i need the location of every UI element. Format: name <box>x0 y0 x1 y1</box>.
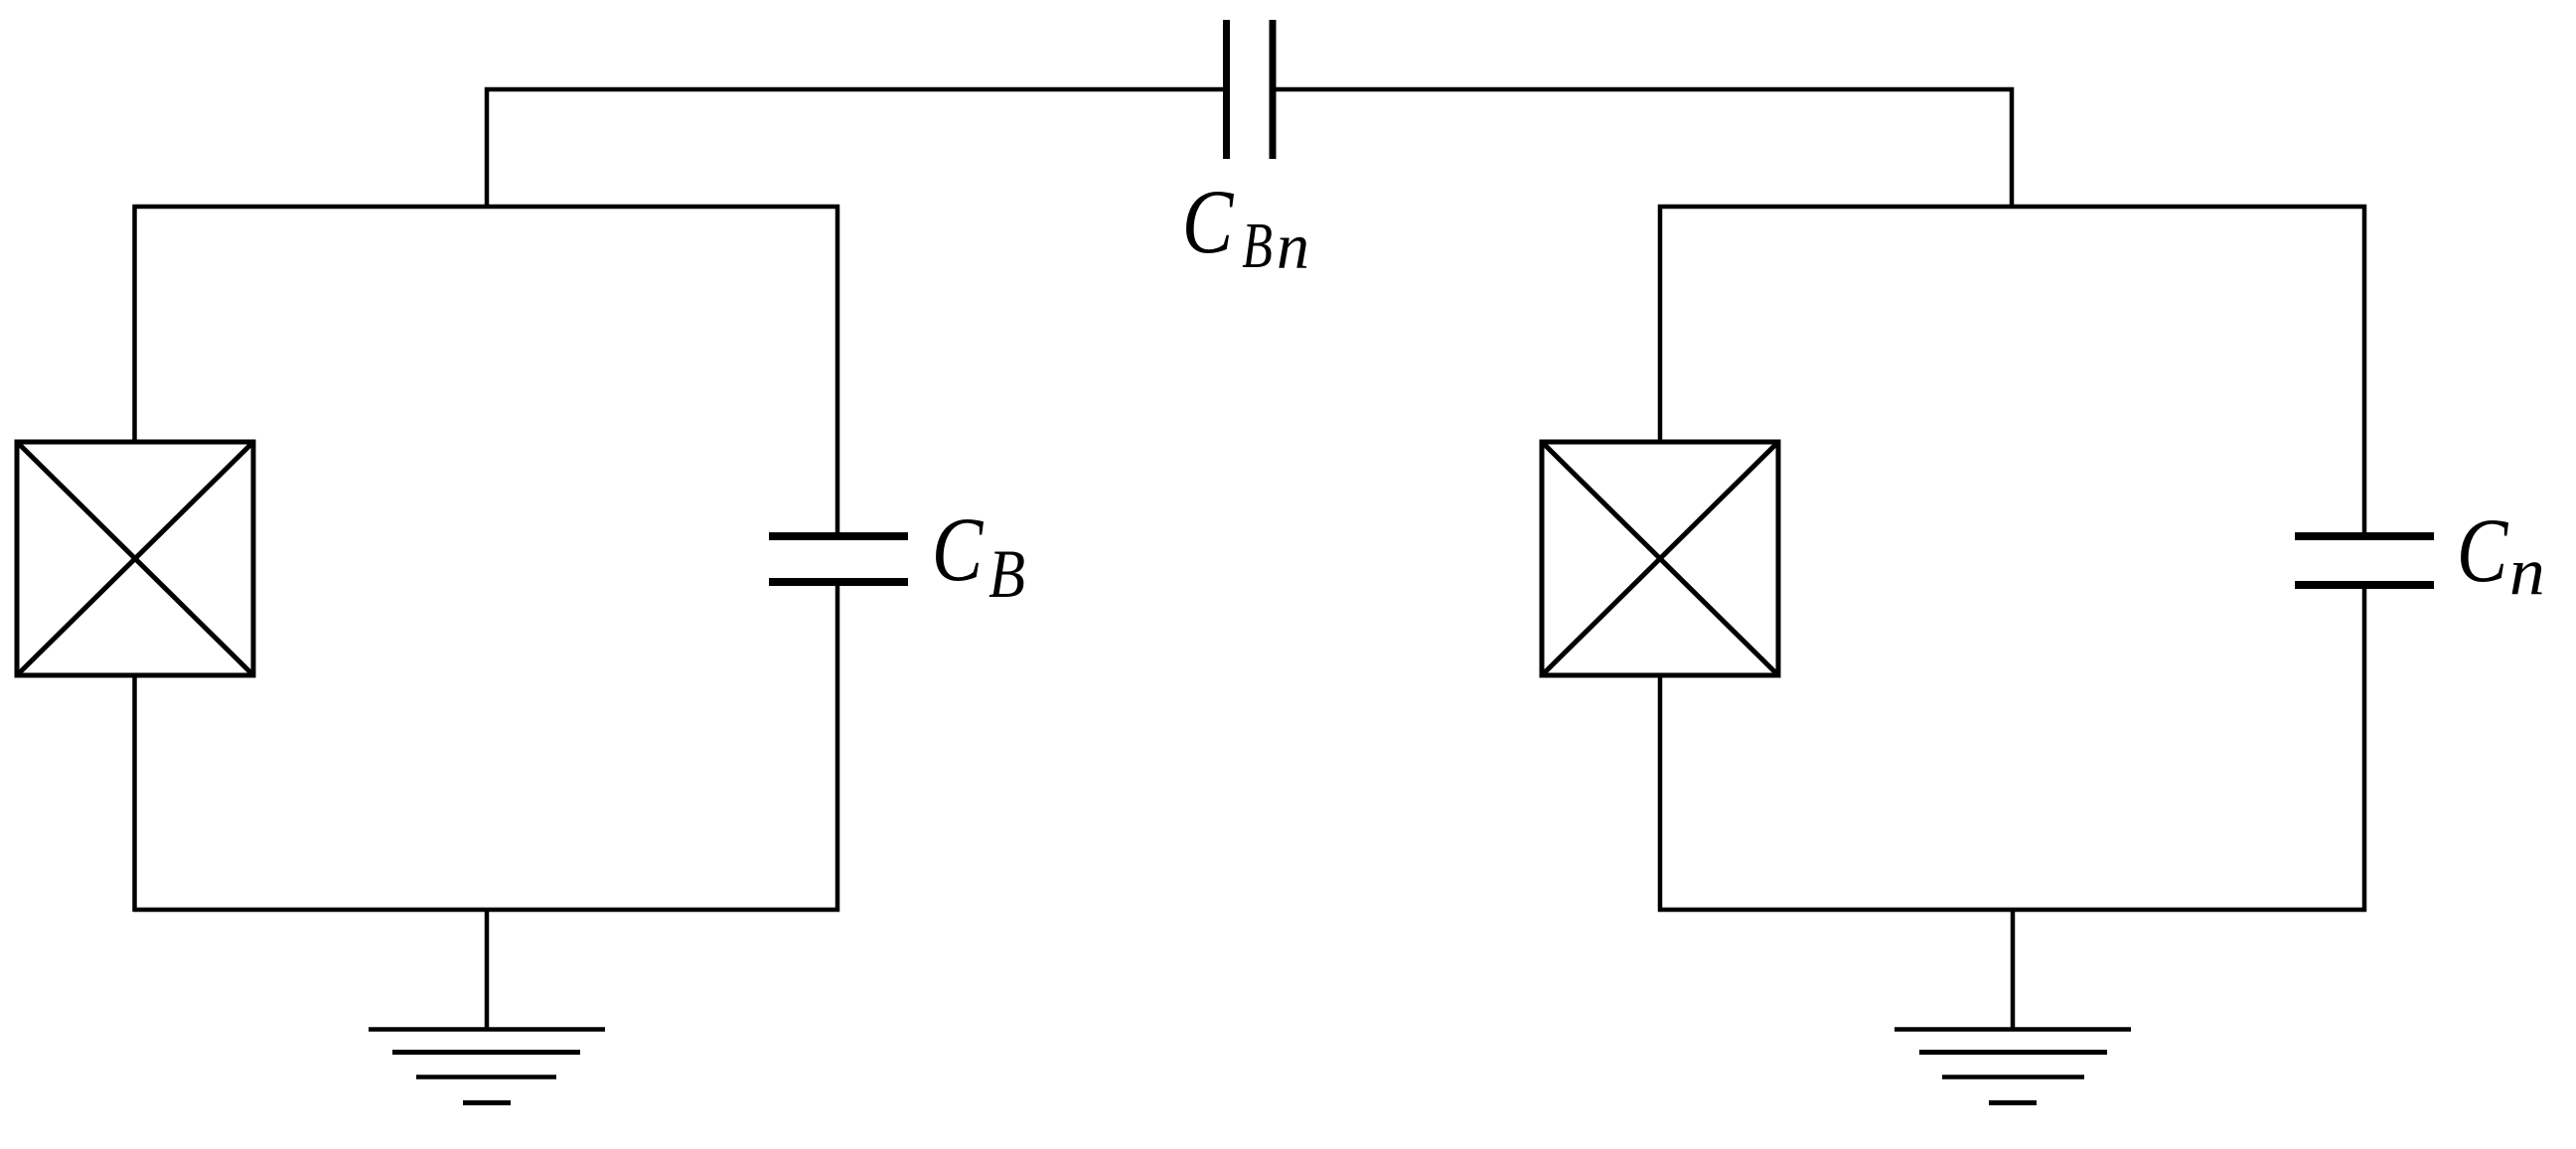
capacitor C_B top plate <box>769 532 908 540</box>
josephson junction left: diagonal \ <box>19 444 251 673</box>
wire right loop left lower segment <box>1658 673 1663 912</box>
wire top coupling right segment <box>1275 87 2014 92</box>
josephson junction right: diagonal \ <box>1544 444 1776 673</box>
capacitor C_Bn right plate <box>1270 20 1277 159</box>
wire left ground stem <box>485 908 490 1029</box>
ground right bar3 <box>1942 1075 2084 1079</box>
svg-text:n: n <box>1277 211 1309 283</box>
capacitor C_B bottom plate <box>769 578 908 586</box>
capacitor C_Bn left plate <box>1223 20 1230 159</box>
josephson junction left: diagonal / <box>19 444 251 673</box>
svg-text:C: C <box>2457 501 2509 602</box>
wire right loop top <box>1658 205 2366 210</box>
josephson junction right: diagonal / <box>1544 444 1776 673</box>
wire left loop right lower segment <box>835 584 840 912</box>
wire left loop right upper segment <box>835 205 840 534</box>
wire top coupling left segment <box>485 87 1224 92</box>
wire right loop right lower segment <box>2362 586 2367 912</box>
ground left bar2 <box>392 1050 580 1055</box>
ground right bar2 <box>1919 1050 2107 1055</box>
ground right bar4 <box>1989 1100 2037 1105</box>
josephson junction right: box <box>1542 442 1778 675</box>
ground right bar1 <box>1894 1027 2131 1032</box>
svg-text:C: C <box>932 500 985 601</box>
ground left bar1 <box>369 1027 605 1032</box>
wire left loop bottom <box>133 908 839 913</box>
wire right ground stem <box>2011 908 2016 1029</box>
wire left riser from node B loop to coupling wire <box>485 87 490 209</box>
ground left bar3 <box>416 1075 556 1079</box>
capacitor C_n top plate <box>2295 532 2434 540</box>
wire right loop bottom <box>1658 908 2366 913</box>
ground left bar4 <box>463 1100 511 1105</box>
wire left loop top <box>133 205 839 210</box>
capacitor C_n bottom plate <box>2295 581 2434 589</box>
wire left loop left upper segment <box>132 205 137 444</box>
svg-text:n: n <box>2509 535 2545 610</box>
wire left loop left lower segment <box>132 673 137 912</box>
svg-text:B: B <box>1242 209 1273 281</box>
wire right loop left upper segment <box>1658 205 1663 444</box>
josephson junction left: box <box>17 442 253 675</box>
svg-text:C: C <box>1182 172 1235 273</box>
wire right loop right upper segment <box>2362 205 2367 534</box>
svg-text:B: B <box>988 536 1025 613</box>
wire right riser from node n loop to coupling wire <box>2010 87 2015 209</box>
